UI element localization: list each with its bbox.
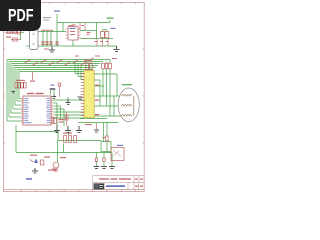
svg-text:PDF: PDF xyxy=(8,5,34,25)
